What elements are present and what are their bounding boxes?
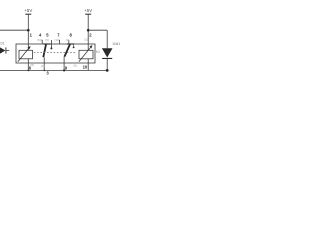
svg-text:D1: D1: [1, 41, 5, 45]
svg-text:(5): (5): [45, 38, 49, 42]
svg-text:(2): (2): [84, 38, 88, 42]
svg-text:(3): (3): [66, 38, 70, 42]
svg-text:(1): (1): [54, 38, 58, 42]
svg-text:1N414: 1N414: [112, 42, 120, 46]
svg-text:(9): (9): [37, 38, 41, 42]
svg-text:K1: K1: [96, 50, 100, 54]
svg-text:+5V: +5V: [24, 8, 32, 13]
svg-text:+5V: +5V: [84, 8, 92, 13]
svg-text:(6): (6): [73, 63, 77, 67]
svg-text:(4): (4): [41, 64, 45, 68]
svg-text:10: 10: [83, 64, 88, 69]
svg-text:(8): (8): [30, 63, 34, 67]
